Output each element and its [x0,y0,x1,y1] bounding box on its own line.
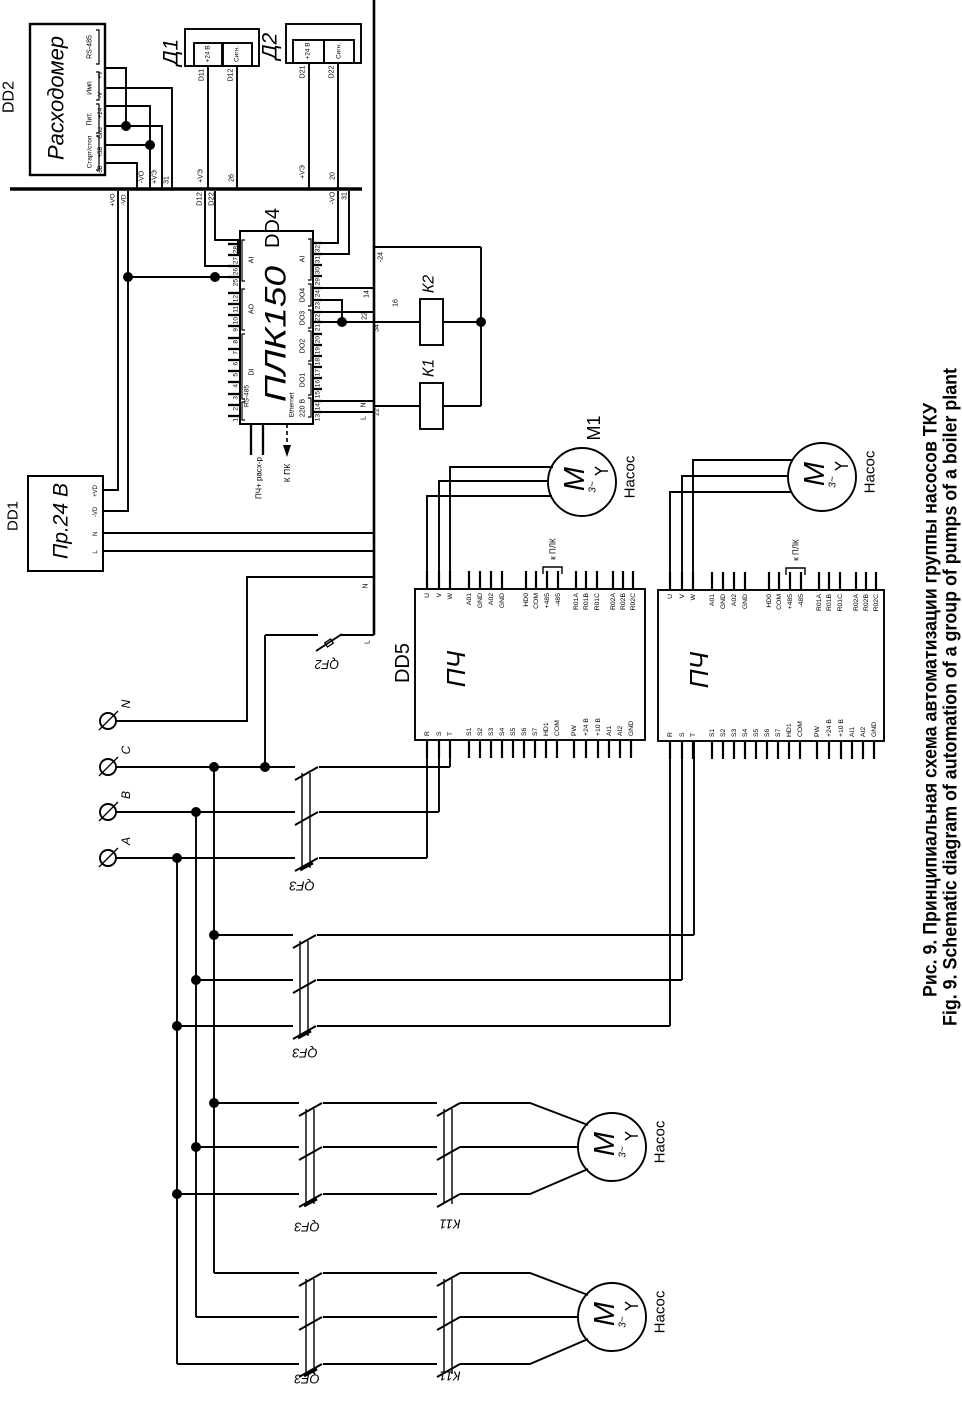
svg-text:Д1: Д1 [160,39,183,67]
wire C tap riser [213,767,215,1273]
ПЧ pin S7 bottom [777,741,779,759]
svg-text:21: 21 [315,324,322,332]
svg-text:18: 18 [315,358,322,366]
svg-text:23: 23 [315,302,322,310]
PLC group DO4 [308,284,311,306]
breaker QF3 [305,1109,307,1204]
svg-text:S7: S7 [775,728,782,737]
wire ПЧ2 V to motor [682,476,788,590]
svg-text:16: 16 [393,299,400,307]
wire D22 bus to PLC pin 27 [215,191,238,255]
svg-text:U: U [424,593,431,598]
svg-text:31: 31 [342,192,349,200]
svg-text:4: 4 [233,384,240,388]
svg-text:N: N [361,402,368,407]
svg-text:R01B: R01B [583,593,590,610]
ПЧ pin GND top [722,572,724,590]
wire C phase [116,766,295,768]
wire B tap riser [195,812,197,1317]
PLC pin 14 [313,400,322,402]
breaker QF3 [301,773,303,868]
svg-text:1: 1 [233,418,240,422]
input terminal B [100,804,116,820]
wire D21 [308,63,310,189]
PLC pin 13 [313,411,322,413]
svg-text:Пр.24 В: Пр.24 В [50,483,73,559]
PLC pin 21 [313,321,322,323]
svg-text:S3: S3 [731,728,738,737]
svg-text:3~: 3~ [828,476,839,488]
bracket к ПЛК [543,567,562,574]
junction A branch3 [172,1189,182,1199]
svg-text:25: 25 [233,279,240,287]
wire PLC pin 24 to rail [322,287,374,289]
svg-text:29: 29 [315,278,322,286]
svg-text:7: 7 [233,351,240,355]
svg-text:+24 В: +24 В [305,42,312,59]
junction A branch2 [172,1021,182,1031]
ПЧ pin U top [669,572,671,590]
PLC pin 24 [313,287,322,289]
svg-text:к ПЛК: к ПЛК [792,539,801,561]
svg-text:S5: S5 [510,727,517,736]
ПЧ pin R01B top [585,571,587,589]
PLC pin 2 [228,404,240,406]
ПЧ pin COM bottom [799,741,801,759]
ПЧ pin PW bottom [816,741,818,759]
ПЧ pin HD1 bottom [788,741,790,759]
svg-text:R01B: R01B [826,594,833,611]
svg-text:Gnd: Gnd [98,127,104,138]
PLC RS-485 line A [250,424,252,455]
svg-text:11: 11 [233,306,240,313]
svg-text:QF3: QF3 [292,1046,318,1061]
PLC pin 30 [313,264,322,266]
svg-text:14: 14 [364,290,371,298]
svg-text:COM: COM [554,720,561,736]
svg-text:+24 В: +24 В [826,719,833,737]
svg-text:W: W [447,592,454,599]
ПЧ pin S3 bottom [490,740,492,758]
wire ПЧ2 W to motor [693,460,793,590]
ПЧ pin T bottom [449,740,451,758]
svg-text:+VЭ: +VЭ [152,170,159,184]
ПЧ pin S6 bottom [766,741,768,759]
wire 24V to PLC pin 25 [128,276,228,278]
svg-text:R: R [667,732,674,737]
wire DD2 -V to bus [105,88,172,189]
PLC pin 16 [313,377,322,379]
ПЧ pin V top [438,571,440,589]
frequency converter ПЧ body [658,590,884,741]
svg-text:13: 13 [315,414,322,422]
ПЧ pin A02 top [490,571,492,589]
PLC pin 5 [228,370,240,372]
svg-text:R01A: R01A [573,593,580,610]
ПЧ pin AI1 bottom [608,740,610,758]
svg-text:DO2: DO2 [300,339,307,354]
svg-text:12: 12 [233,295,240,303]
ПЧ pin AI1 bottom [851,741,853,759]
svg-text:L: L [361,416,368,420]
svg-text:31: 31 [315,256,322,264]
svg-text:К1: К1 [421,359,438,377]
svg-text:N: N [363,583,370,588]
svg-text:D22: D22 [329,65,336,78]
svg-text:3~: 3~ [618,1146,629,1158]
PLC group DO1 [308,364,311,395]
svg-text:COM: COM [776,594,783,610]
svg-text:D22: D22 [207,192,216,206]
ПЧ pin R02C top [632,571,634,589]
PLC group AI left [242,240,245,281]
PLC pin 32 [313,242,322,244]
svg-text:-VO: -VO [139,170,146,183]
PLC pin 4 [228,381,240,383]
svg-text:+24 В: +24 В [205,45,212,62]
svg-text:AO: AO [249,303,256,314]
wire DD1 -VD to bus [103,191,128,511]
ПЧ pin R02B top [865,572,867,590]
ПЧ pin GND bottom [630,740,632,758]
ПЧ pin R02A top [612,571,614,589]
svg-text:2: 2 [233,407,240,411]
svg-text:220 В: 220 В [300,399,307,418]
svg-text:S: S [679,732,686,737]
svg-text:HD1: HD1 [543,722,550,736]
svg-text:COM: COM [533,593,540,609]
svg-text:AI: AI [300,256,307,263]
wire branch3 A to motor [177,1193,299,1195]
relay K2 coil [420,299,443,345]
motor M 3~ [578,1283,646,1351]
svg-text:DO4: DO4 [300,288,307,303]
svg-text:6: 6 [233,362,240,366]
svg-text:3~: 3~ [618,1316,629,1328]
ПЧ pin R02C top [875,572,877,590]
PLC pin 29 [313,275,322,277]
svg-text:3: 3 [233,396,240,400]
ПЧ pin GND top [479,571,481,589]
svg-text:24: 24 [315,290,322,298]
svg-text:15: 15 [315,391,322,399]
svg-text:DI: DI [249,368,256,375]
wire A tap riser [176,858,178,1364]
svg-text:-24: -24 [378,252,385,262]
svg-text:DD4: DD4 [262,208,284,248]
ПЧ pin A01 top [468,571,470,589]
svg-text:RS-485: RS-485 [87,35,94,59]
svg-text:A01: A01 [466,593,473,605]
PLC pin 7 [228,348,240,350]
ПЧ pin +24 В bottom [828,741,830,759]
ПЧ pin HD0 top [525,571,527,589]
junction B branch2 [191,975,201,985]
PLC group AI right [308,239,311,280]
svg-text:S1: S1 [709,728,716,737]
terminal bus X1 [10,187,362,190]
ПЧ pin COM top [535,571,537,589]
svg-text:3~: 3~ [588,481,599,493]
svg-text:+VЭ: +VЭ [198,169,205,183]
PLC pin 9 [228,325,240,327]
ПЧ pin S2 bottom [479,740,481,758]
svg-text:31: 31 [164,176,171,184]
svg-text:R01C: R01C [594,593,601,610]
PLC pin 15 [313,388,322,390]
breaker К11 [443,1109,445,1204]
wire B phase [116,811,295,813]
wire K2 to right bus [443,321,481,323]
svg-text:DD5: DD5 [392,643,414,683]
PLC group DI [242,334,245,399]
ПЧ pin -485 top [800,572,802,590]
svg-text:D21: D21 [300,65,307,78]
junction +V/Gnd [121,121,131,131]
ПЧ pin GND top [744,572,746,590]
flowmeter DD2 body [30,24,105,175]
svg-text:Старт/стоп: Старт/стоп [87,135,94,168]
svg-text:GND: GND [742,594,749,609]
svg-text:Д2: Д2 [259,32,282,61]
junction C branch3 [209,1098,219,1108]
svg-text:A: A [119,837,133,846]
wire DD2 Gnd to bus [105,126,162,189]
svg-text:D12: D12 [195,192,204,206]
ПЧ pin S1 bottom [468,740,470,758]
svg-text:T: T [690,733,697,737]
svg-text:C: C [119,745,133,754]
ПЧ pin -485 top [557,571,559,589]
svg-text:AI1: AI1 [849,727,856,737]
svg-text:S2: S2 [477,727,484,736]
svg-text:S3: S3 [488,727,495,736]
wire ПЧ1 W to M1 [450,467,553,589]
ПЧ pin R01C top [839,572,841,590]
ПЧ pin R02B top [622,571,624,589]
PLC pin 10 [228,314,240,316]
svg-text:-V: -V [98,92,104,98]
PLC pin 23 [313,299,322,301]
ПЧ pin S bottom [438,740,440,758]
junction pin23/pin21 [337,317,347,327]
svg-text:HD1: HD1 [786,723,793,737]
sensor Д2 body [286,24,361,63]
ПЧ pin R02A top [855,572,857,590]
svg-text:D11: D11 [199,69,206,81]
junction C branch2 [209,930,219,940]
svg-text:R01C: R01C [837,594,844,611]
breaker QF2 [265,634,318,636]
svg-text:PW: PW [571,724,578,736]
ПЧ pin R01C top [596,571,598,589]
junction on -VD riser [123,272,133,282]
ПЧ pin S4 bottom [501,740,503,758]
svg-text:S7: S7 [532,727,539,736]
svg-text:16: 16 [315,380,322,388]
PLC pin 31 [313,253,322,255]
svg-text:Насос: Насос [652,1120,669,1163]
ПЧ pin R bottom [426,740,428,758]
wire D12 bus to PLC pin 26 [205,191,228,266]
svg-text:К ПК: К ПК [282,464,292,482]
svg-text:32: 32 [315,245,322,253]
breaker QF3 [299,941,301,1036]
PLC group RS-485 [242,402,245,420]
svg-text:QF3: QF3 [294,1372,320,1387]
wire A to ПЧ1 R [426,741,428,858]
svg-text:N: N [119,699,133,708]
PLC pin 27 [228,254,240,256]
svg-text:к ПЛК: к ПЛК [549,538,558,560]
ПЧ pin W top [449,571,451,589]
Д1 terminal Сигн. [223,43,252,66]
svg-text:19: 19 [315,347,322,355]
svg-text:B: B [119,791,133,799]
svg-text:Сигн.: Сигн. [234,46,241,62]
ПЧ pin S1 bottom [711,741,713,759]
ПЧ pin S5 bottom [755,741,757,759]
PLC ПЛК150 body [240,231,313,424]
svg-text:17: 17 [315,369,322,377]
wire ПЧ2 U to motor [670,492,792,590]
svg-text:+VD: +VD [93,484,99,497]
svg-text:S1: S1 [466,727,473,736]
svg-text:ПЧ: ПЧ [684,651,714,688]
ПЧ pin PW bottom [573,740,575,758]
svg-text:+5В: +5В [98,147,104,158]
svg-text:T: T [447,732,454,736]
ПЧ pin +24 В bottom [585,740,587,758]
PLC pin 19 [313,344,322,346]
wire DD1 N to rail [103,532,374,534]
ПЧ pin S7 bottom [534,740,536,758]
svg-text:9: 9 [233,328,240,332]
ПЧ pin A01 top [711,572,713,590]
svg-text:GND: GND [477,593,484,608]
PLC pin 8 [228,337,240,339]
PLC pin 26 [228,265,240,267]
junction A tap [172,853,182,863]
wire D12 [236,66,238,189]
junction C tap [209,762,219,772]
ПЧ pin U top [426,571,428,589]
svg-text:К11: К11 [439,1369,460,1384]
motor M 3~ [578,1113,646,1181]
svg-text:М: М [589,1301,621,1326]
relay right bus [480,247,482,406]
junction +5В/+24 [145,140,155,150]
wire PLC pin 14 to rail [322,400,374,402]
svg-text:S4: S4 [742,728,749,737]
breaker К11 [443,1279,445,1374]
svg-text:GND: GND [871,722,878,737]
ПЧ pin HD0 top [768,572,770,590]
input terminal C [100,759,116,775]
junction on pin25 wire [210,272,220,282]
PLC pin 18 [313,355,322,357]
svg-text:-5В: -5В [98,165,104,174]
svg-text:GND: GND [720,594,727,609]
wire ПЧ1 U to M1 [427,496,552,589]
svg-text:R01A: R01A [816,594,823,611]
ПЧ pin COM top [778,572,780,590]
svg-text:20: 20 [315,336,322,344]
svg-text:GND: GND [499,593,506,608]
wire DD1 +VD to bus [103,191,118,490]
wire DD2 +V to Gnd junction [105,68,126,126]
ПЧ pin +485 top [546,571,548,589]
svg-text:22: 22 [374,408,381,416]
svg-text:-VD: -VD [93,506,99,517]
ПЧ pin +10 В bottom [597,740,599,758]
svg-text:ПЛК150: ПЛК150 [260,266,293,402]
wire C branch2 [214,934,293,936]
svg-text:+VЭ: +VЭ [300,165,307,179]
svg-text:R02B: R02B [620,593,627,610]
wire A phase [116,857,295,859]
sensor Д1 body [185,29,259,66]
PLC group DO2 [308,331,311,361]
svg-text:R02C: R02C [630,593,637,610]
svg-text:HD0: HD0 [766,594,773,608]
svg-text:U: U [667,594,674,599]
svg-text:R: R [424,731,431,736]
wire branch4 C to motor [214,1272,299,1274]
svg-text:Ethernet: Ethernet [289,393,296,418]
svg-text:S6: S6 [764,728,771,737]
ПЧ pin AI2 bottom [619,740,621,758]
svg-text:-VD: -VD [121,194,128,206]
svg-text:HD0: HD0 [523,593,530,607]
svg-text:W: W [690,593,697,600]
ПЧ pin +485 top [789,572,791,590]
ПЧ pin GND bottom [873,741,875,759]
svg-text:-VO: -VO [330,191,337,204]
svg-text:8: 8 [233,340,240,344]
svg-text:Насос: Насос [652,1290,669,1333]
svg-text:AI2: AI2 [617,726,624,736]
svg-text:+V: +V [98,71,104,79]
svg-text:+24 В: +24 В [583,718,590,736]
svg-text:S5: S5 [753,728,760,737]
wire D22 [337,63,339,189]
wire branch2 to ПЧ2 R [669,741,671,1026]
svg-text:S6: S6 [521,727,528,736]
svg-text:S: S [436,731,443,736]
wire branch4 A to motor [177,1363,299,1365]
svg-text:A02: A02 [488,593,495,605]
PLC pin 20 [313,333,322,335]
ПЧ pin R bottom [669,741,671,759]
svg-text:14: 14 [315,403,322,411]
wire DD2 -5В to bus [105,163,137,189]
svg-text:+10 В: +10 В [838,719,845,737]
PLC pin 11 [228,303,240,305]
PLC pin 25 [228,276,240,278]
wire bus to PLC pin 32 [322,191,338,243]
wire B to ПЧ1 S [438,741,440,812]
bracket к ПЛК [786,568,805,575]
wire branch3 C to motor [214,1102,299,1104]
svg-text:Сигн.: Сигн. [336,43,343,59]
svg-text:Имп: Имп [87,81,94,95]
svg-text:PW: PW [814,725,821,737]
svg-text:RS-485: RS-485 [244,385,251,407]
svg-text:A01: A01 [709,594,716,606]
ПЧ pin AI2 bottom [862,741,864,759]
svg-text:К11: К11 [439,1217,460,1232]
